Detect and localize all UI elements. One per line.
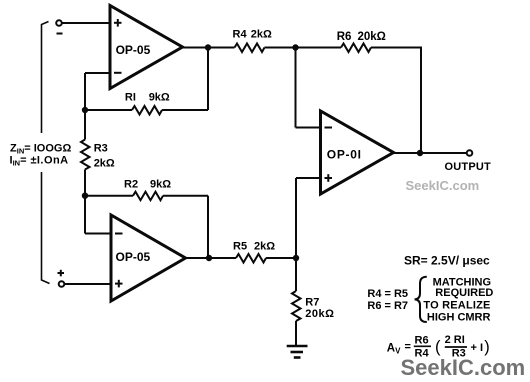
svg-text:2kΩ: 2kΩ — [94, 157, 115, 169]
svg-text:SeekIC.com: SeekIC.com — [406, 178, 480, 193]
svg-text:9kΩ: 9kΩ — [150, 178, 171, 190]
svg-text:OUTPUT: OUTPUT — [445, 161, 492, 173]
svg-text:R2: R2 — [124, 178, 138, 190]
svg-text:9kΩ: 9kΩ — [149, 92, 170, 104]
svg-text:R4: R4 — [233, 28, 248, 40]
svg-text:R3: R3 — [94, 143, 108, 155]
svg-text:2 RI: 2 RI — [445, 334, 465, 346]
svg-text:): ) — [484, 338, 490, 356]
svg-text:20kΩ: 20kΩ — [305, 308, 334, 320]
svg-text:HIGH CMRR: HIGH CMRR — [427, 312, 491, 324]
svg-text:=: = — [405, 341, 411, 353]
svg-text:OP-0I: OP-0I — [327, 148, 362, 162]
svg-text:TO REALIZE: TO REALIZE — [423, 299, 490, 311]
svg-text:SR= 2.5V/ μsec: SR= 2.5V/ μsec — [404, 253, 490, 267]
svg-text:R6: R6 — [337, 31, 352, 43]
svg-text:OP-05: OP-05 — [116, 250, 151, 264]
svg-text:OP-05: OP-05 — [116, 43, 151, 57]
svg-text:REQUIRED: REQUIRED — [435, 287, 493, 299]
svg-text:(: ( — [435, 338, 441, 356]
svg-text:RI: RI — [125, 92, 136, 104]
svg-text:2kΩ: 2kΩ — [254, 240, 275, 252]
svg-text:R6 = R7: R6 = R7 — [367, 300, 408, 312]
svg-text:SeekIC.com: SeekIC.com — [401, 355, 526, 380]
svg-text:R5: R5 — [233, 240, 247, 252]
svg-text:R6: R6 — [415, 335, 429, 347]
svg-text:20kΩ: 20kΩ — [358, 31, 386, 43]
svg-text:+ I: + I — [471, 342, 484, 354]
svg-text:R4 = R5: R4 = R5 — [367, 288, 408, 300]
svg-text:R7: R7 — [305, 296, 319, 308]
svg-text:2kΩ: 2kΩ — [251, 28, 272, 40]
